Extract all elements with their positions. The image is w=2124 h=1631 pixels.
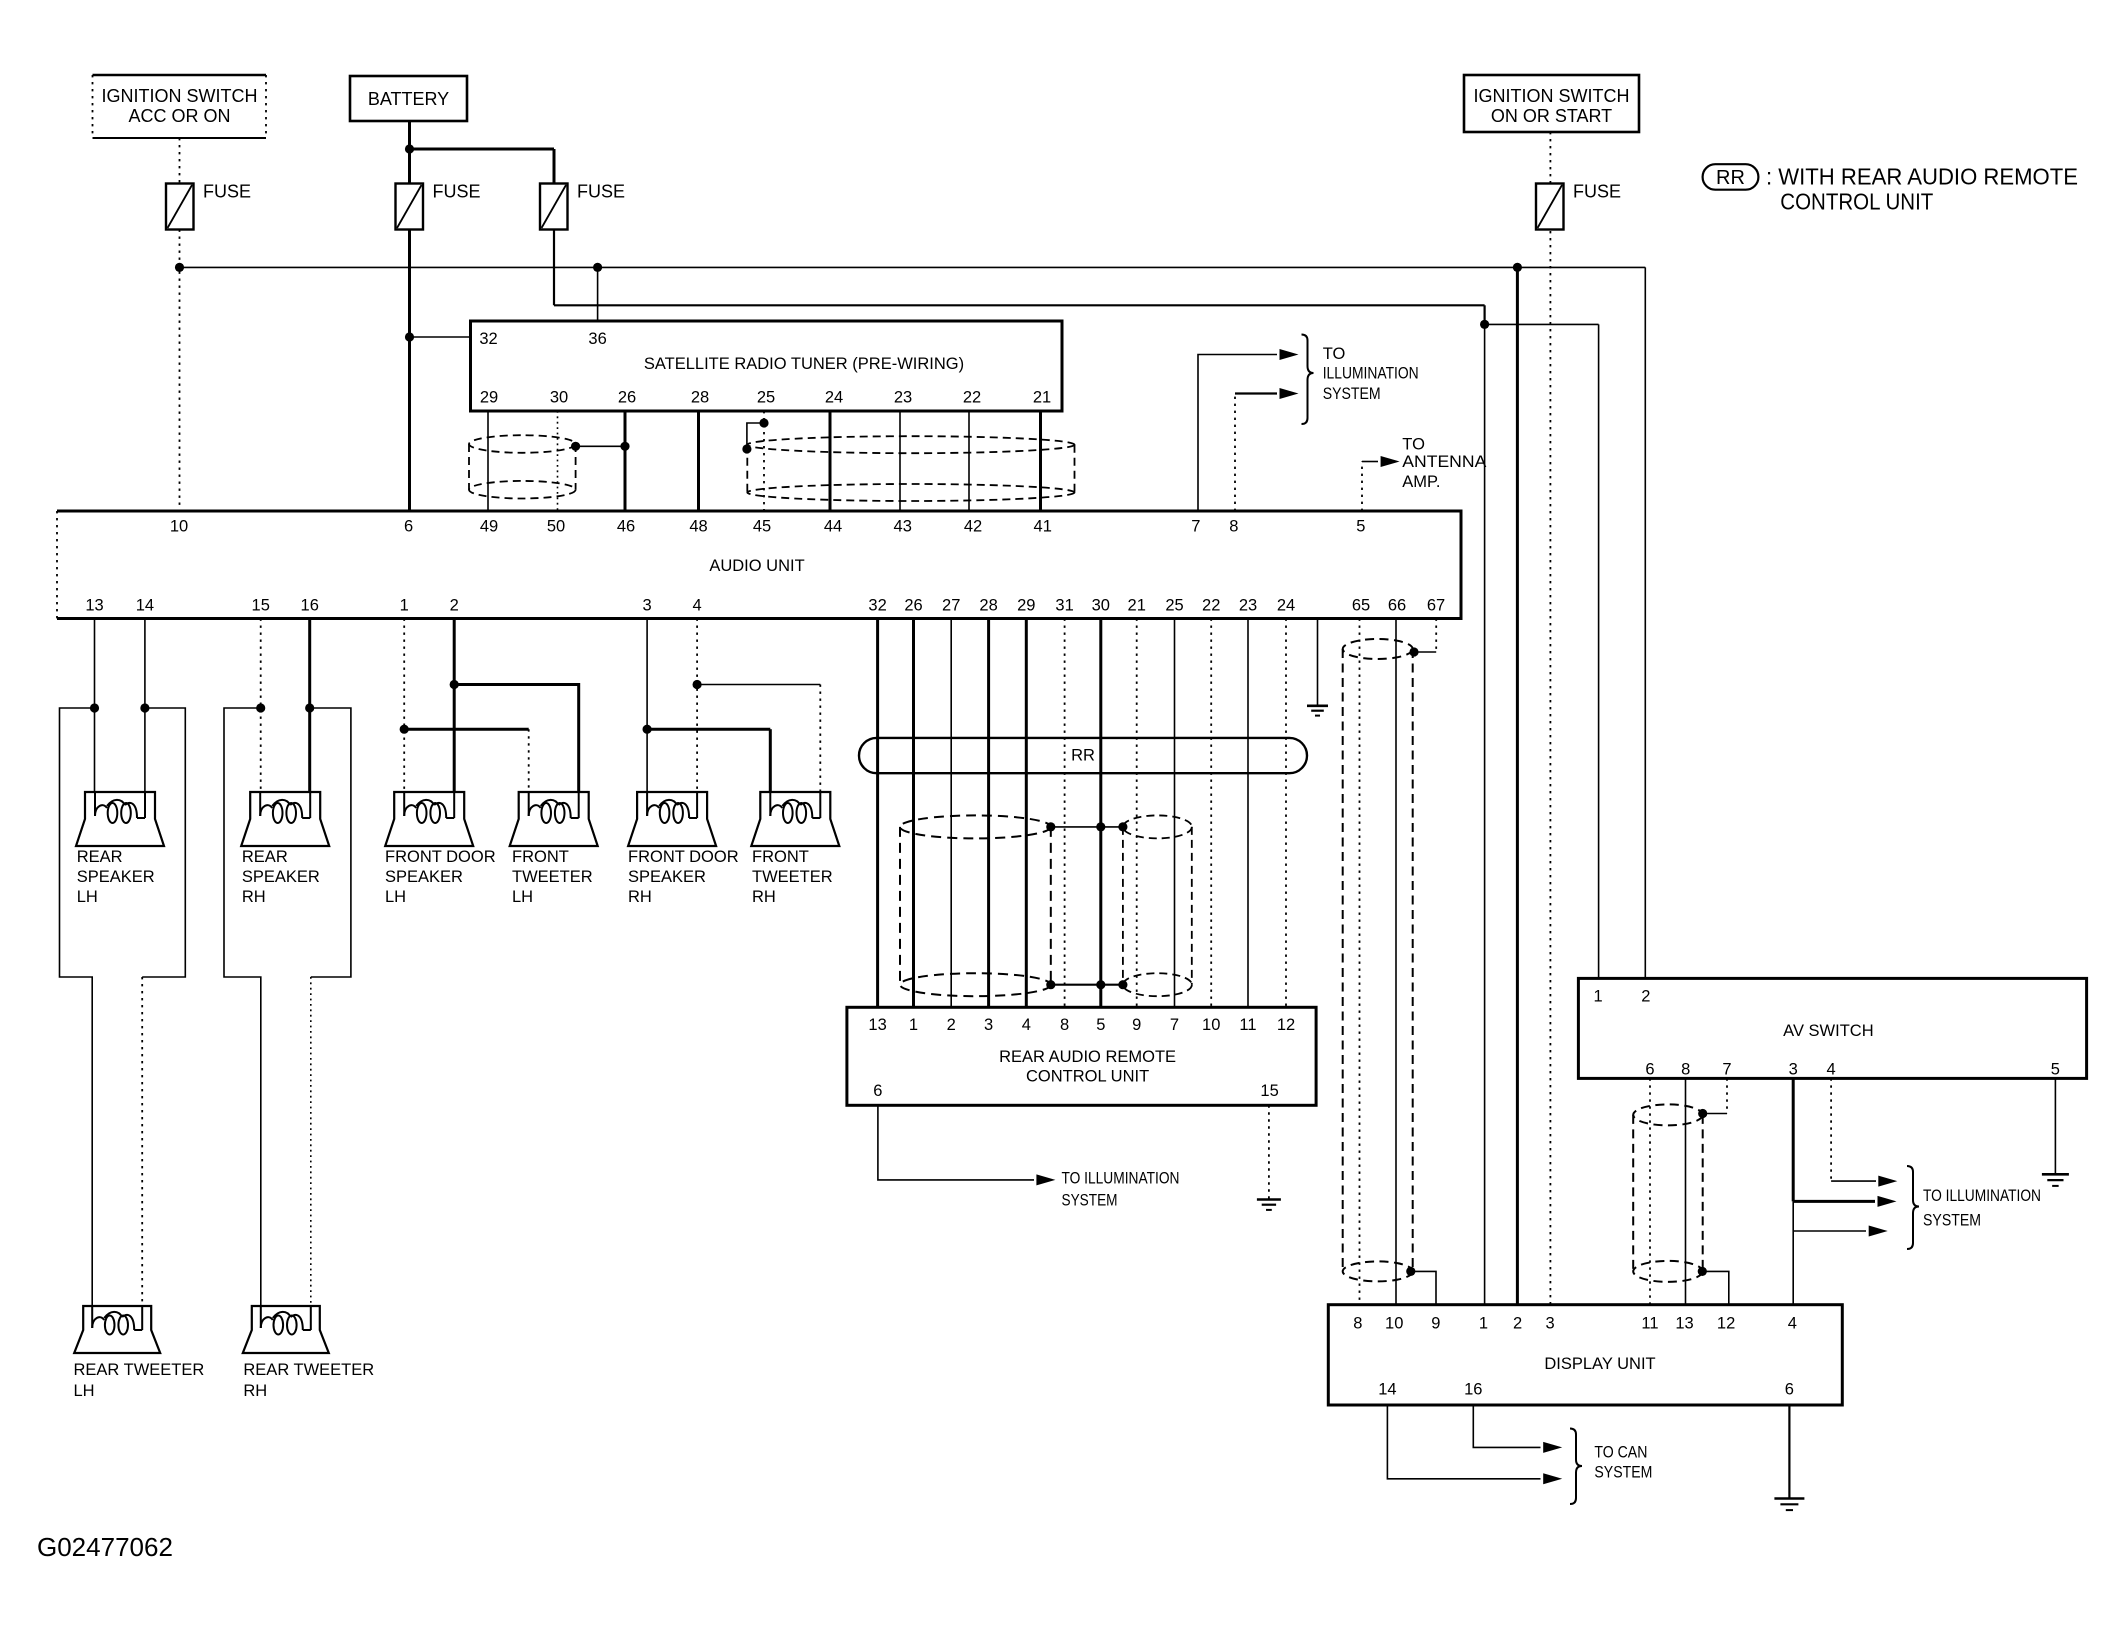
- svg-text:SPEAKER: SPEAKER: [242, 868, 320, 886]
- svg-text:TO: TO: [1323, 345, 1346, 363]
- junction rear speaker LH + tap: [90, 703, 99, 712]
- svg-text:50: 50: [547, 518, 565, 536]
- svg-text:IGNITION SWITCH: IGNITION SWITCH: [102, 86, 258, 106]
- svg-text:RH: RH: [243, 1382, 267, 1400]
- wire: down to front tweeter RH +: [769, 729, 772, 792]
- svg-text:LH: LH: [512, 888, 533, 906]
- wire: audio 2 to front door speaker LH -: [453, 619, 456, 793]
- junction shield S2 drain tap on wire 45: [759, 418, 768, 427]
- svg-text:32: 32: [479, 330, 497, 348]
- wire: ignition ON/START to fuse F4 (dotted): [1549, 132, 1551, 183]
- speaker: FRONT TWEETER RH: [751, 792, 839, 846]
- shielded cable S2 (wires 45-41): [747, 436, 1074, 501]
- svg-text:CONTROL UNIT: CONTROL UNIT: [1780, 189, 1933, 215]
- svg-text:8: 8: [1681, 1061, 1690, 1079]
- svg-text:8: 8: [1353, 1315, 1362, 1333]
- wire: ignition ACC to fuse F1 (dotted): [179, 138, 181, 184]
- brace: to illumination system (AV): [1907, 1166, 1919, 1249]
- wire: fuse F3 feed horizontal: [554, 304, 1485, 306]
- wire: fuse F3 down: [553, 230, 555, 306]
- svg-text:LH: LH: [385, 888, 406, 906]
- wire: rear speaker RH loop right: [310, 708, 351, 977]
- junction battery feed split right: [1480, 320, 1489, 329]
- wire: display 14 to CAN: [1387, 1405, 1540, 1479]
- wire: audio 14 to rear speaker LH -: [144, 619, 146, 793]
- wire: audio 66 to display 10: [1395, 619, 1397, 1305]
- display unit box: [1328, 1305, 1842, 1405]
- svg-text:5: 5: [1356, 518, 1365, 536]
- shielded cable D (wires 65/66): [1343, 639, 1413, 1281]
- junction front LH + tap: [400, 725, 409, 734]
- svg-text:65: 65: [1352, 597, 1370, 615]
- junction battery feed to satellite pin 32: [405, 332, 414, 341]
- arrowhead antenna amp: [1381, 456, 1400, 467]
- speaker: FRONT TWEETER LH: [510, 792, 598, 846]
- wire: audio pin 5 up (dotted): [1361, 462, 1363, 512]
- junction shield C drain top: [1698, 1109, 1707, 1118]
- wire: audio 26/1 rear remote: [912, 619, 915, 1008]
- svg-text:CONTROL UNIT: CONTROL UNIT: [1026, 1068, 1149, 1086]
- svg-text:4: 4: [693, 597, 702, 615]
- svg-text:21: 21: [1128, 597, 1146, 615]
- svg-text:RR: RR: [1071, 747, 1095, 765]
- ground rear remote: [1257, 1200, 1281, 1210]
- legend RR symbol: [1703, 164, 1759, 190]
- svg-text:21: 21: [1033, 389, 1051, 407]
- wire: audio 29/4 rear remote: [1025, 619, 1028, 1008]
- svg-text:2: 2: [1513, 1315, 1522, 1333]
- wire: AV 4 to illumination: [1831, 1180, 1876, 1182]
- speaker: REAR TWEETER LH: [74, 1306, 160, 1353]
- wire: shield D drain to display 9: [1411, 1271, 1436, 1304]
- wire: AV 5 to ground: [2054, 1078, 2056, 1174]
- arrowhead illumination 1: [1280, 349, 1299, 360]
- shielded cable B (rear remote 9/7): [1123, 815, 1192, 996]
- wire: audio 3 to front door speaker RH +: [646, 619, 648, 793]
- svg-text:48: 48: [689, 518, 707, 536]
- wire: AV 6 to display 11 (dotted): [1649, 1078, 1651, 1304]
- battery box: [350, 76, 467, 121]
- arrowhead CAN 2: [1543, 1473, 1562, 1484]
- svg-text:42: 42: [964, 518, 982, 536]
- wire: down to display unit pin 2: [1516, 267, 1519, 1304]
- junction wire 30 tap bottom: [1096, 980, 1105, 989]
- svg-text:3: 3: [984, 1016, 993, 1034]
- wire: satellite 26 to audio 46: [624, 411, 627, 511]
- svg-text:66: 66: [1388, 597, 1406, 615]
- wire: audio 30/5 rear remote: [1099, 619, 1102, 1008]
- svg-text:8: 8: [1060, 1016, 1069, 1034]
- svg-text:7: 7: [1170, 1016, 1179, 1034]
- junction shield B drain top: [1118, 822, 1127, 831]
- svg-text:SYSTEM: SYSTEM: [1323, 385, 1381, 403]
- svg-text:23: 23: [894, 389, 912, 407]
- wire: display 6 to ground: [1788, 1405, 1790, 1499]
- svg-text:6: 6: [1645, 1061, 1654, 1079]
- svg-text:31: 31: [1055, 597, 1073, 615]
- svg-text:IGNITION SWITCH: IGNITION SWITCH: [1474, 86, 1630, 106]
- junction front LH - tap: [450, 680, 459, 689]
- fuse F3: [540, 182, 625, 230]
- svg-text:30: 30: [1092, 597, 1110, 615]
- svg-text:LH: LH: [77, 888, 98, 906]
- wire: audio 31/8 rear remote: [1064, 619, 1066, 1008]
- svg-text:28: 28: [979, 597, 997, 615]
- svg-text:ON OR START: ON OR START: [1491, 106, 1612, 126]
- svg-text:13: 13: [85, 597, 103, 615]
- rear audio remote control unit box: [847, 1007, 1316, 1105]
- wire: loop to rear tweeter LH - (dotted): [141, 977, 143, 1306]
- svg-text:SPEAKER: SPEAKER: [77, 868, 155, 886]
- svg-text:44: 44: [824, 518, 842, 536]
- wire: audio 23/11 rear remote: [1247, 619, 1249, 1008]
- svg-text:5: 5: [2051, 1061, 2060, 1079]
- wire: branch to front tweeter RH +: [647, 728, 770, 731]
- svg-text:AUDIO UNIT: AUDIO UNIT: [709, 557, 804, 575]
- wire: AV 7 to shield C: [1703, 1113, 1727, 1115]
- AV switch box: [1578, 978, 2086, 1078]
- svg-text:4: 4: [1788, 1315, 1797, 1333]
- svg-text:REAR TWEETER: REAR TWEETER: [74, 1361, 205, 1379]
- wire: satellite 29 to audio 49: [487, 411, 489, 511]
- wire: fuse F3 feed corner down: [1483, 305, 1485, 324]
- wire: to satellite tuner pin 32: [410, 336, 471, 338]
- junction shield S1 drain on wire 46: [620, 442, 629, 451]
- svg-text:67: 67: [1427, 597, 1445, 615]
- svg-text:41: 41: [1034, 518, 1052, 536]
- svg-text:6: 6: [1785, 1381, 1794, 1399]
- wire: audio 4 to front door speaker RH - (dotted): [696, 619, 698, 793]
- svg-text:11: 11: [1641, 1315, 1658, 1333]
- junction shield A drain top: [1046, 822, 1055, 831]
- svg-text:TWEETER: TWEETER: [752, 868, 833, 886]
- svg-text:13: 13: [1675, 1315, 1693, 1333]
- wire: audio unit ground: [1317, 619, 1319, 706]
- svg-text:14: 14: [1378, 1381, 1396, 1399]
- RR option oval: [859, 738, 1307, 773]
- ground AV switch: [2042, 1174, 2069, 1186]
- wire: shield S2 drain hook: [747, 423, 764, 449]
- svg-text:15: 15: [252, 597, 270, 615]
- svg-text:24: 24: [825, 389, 843, 407]
- wire: down to front tweeter RH - (dotted): [819, 685, 821, 793]
- wire: audio 67 down (dotted): [1435, 619, 1437, 653]
- svg-text:27: 27: [942, 597, 960, 615]
- svg-text:16: 16: [1464, 1381, 1482, 1399]
- text: TO ANTENNA AMP.: [1402, 435, 1486, 491]
- svg-text:25: 25: [1165, 597, 1183, 615]
- svg-text:BATTERY: BATTERY: [368, 89, 449, 109]
- legend text: WITH REAR AUDIO REMOTE CONTROL UNIT: [1766, 164, 2078, 215]
- svg-text:RH: RH: [752, 888, 776, 906]
- junction shield B drain bottom: [1118, 980, 1127, 989]
- fuse F4: [1536, 182, 1621, 230]
- wire: audio pin 7 to illumination: [1198, 355, 1277, 512]
- wire: satellite 25 to audio 45 (dotted): [763, 411, 765, 511]
- wire: satellite 22 to audio 42: [968, 411, 970, 511]
- junction rear speaker RH + tap: [256, 703, 265, 712]
- wire: fuse F1 to audio unit pin 10 (dotted): [179, 230, 181, 512]
- svg-text:2: 2: [947, 1016, 956, 1034]
- ignition switch ACC OR ON box: [93, 75, 267, 138]
- wire: display 16 to CAN: [1473, 1405, 1540, 1447]
- svg-text:ILLUMINATION: ILLUMINATION: [1323, 365, 1419, 383]
- wire: shield C drain to display 12: [1702, 1271, 1729, 1304]
- svg-text:FUSE: FUSE: [203, 182, 251, 202]
- fuse F1: [166, 182, 251, 230]
- wire: rear speaker LH loop to rear tweeter LH +: [60, 708, 95, 1306]
- svg-text:FUSE: FUSE: [433, 182, 481, 202]
- wire: rear remote pin 6 to illumination: [878, 1105, 1034, 1180]
- wire: audio pin 8 to illumination: [1235, 392, 1277, 394]
- wire: audio 22/10 rear remote: [1210, 619, 1212, 1008]
- wire: audio 25/7 rear remote: [1174, 619, 1176, 1008]
- svg-text:9: 9: [1132, 1016, 1141, 1034]
- svg-text:23: 23: [1239, 597, 1257, 615]
- svg-text:1: 1: [909, 1016, 918, 1034]
- svg-text:12: 12: [1717, 1315, 1735, 1333]
- svg-text:4: 4: [1022, 1016, 1031, 1034]
- svg-text:10: 10: [1202, 1016, 1220, 1034]
- svg-text:4: 4: [1827, 1061, 1836, 1079]
- wire: down to satellite tuner pin 36: [597, 267, 599, 321]
- speaker: REAR TWEETER RH: [243, 1306, 329, 1353]
- svg-text:TO ILLUMINATION: TO ILLUMINATION: [1062, 1169, 1180, 1187]
- fuse F2: [396, 182, 481, 230]
- svg-text:12: 12: [1277, 1016, 1295, 1034]
- wire: audio 27/2 rear remote: [950, 619, 952, 1008]
- shielded cable C (AV 6/8): [1633, 1104, 1703, 1282]
- svg-text:11: 11: [1239, 1016, 1256, 1034]
- wire: audio 28/3 rear remote: [987, 619, 990, 1008]
- svg-text:16: 16: [301, 597, 319, 615]
- svg-text:46: 46: [617, 518, 635, 536]
- brace: to illumination system (audio): [1302, 335, 1314, 425]
- svg-text:36: 36: [588, 330, 606, 348]
- arrowhead rear remote illumination: [1036, 1174, 1055, 1185]
- wire: audio 67 to shield D: [1414, 651, 1436, 653]
- satellite radio tuner (pre-wiring) box: [471, 321, 1063, 411]
- speaker: REAR SPEAKER LH: [76, 792, 164, 846]
- junction shield A drain bottom: [1046, 980, 1055, 989]
- svg-text:26: 26: [904, 597, 922, 615]
- wire: branch to AV switch pin 1: [1485, 323, 1599, 325]
- wire: satellite 24 to audio 44: [829, 411, 832, 511]
- svg-text:1: 1: [1594, 988, 1603, 1006]
- wire: fuse F2 to audio unit pin 6: [408, 230, 411, 512]
- svg-text:FRONT DOOR: FRONT DOOR: [385, 848, 496, 866]
- wire: shield drains bottom link: [1051, 984, 1123, 986]
- wire: audio pin 5 to antenna amp: [1362, 461, 1378, 463]
- arrowhead illumination 2: [1280, 388, 1299, 399]
- svg-text:29: 29: [1017, 597, 1035, 615]
- svg-text:2: 2: [1641, 988, 1650, 1006]
- text: TO CAN SYSTEM: [1594, 1444, 1652, 1482]
- junction ACC bus tap: [175, 263, 184, 272]
- wire: audio pin 8 up (dotted): [1234, 394, 1236, 512]
- svg-text:25: 25: [757, 389, 775, 407]
- speaker: FRONT DOOR SPEAKER LH: [385, 792, 473, 846]
- svg-text:TO CAN: TO CAN: [1594, 1444, 1647, 1462]
- text: TO ILLUMINATION SYSTEM (AV): [1923, 1187, 2041, 1229]
- wire: audio 21/9 rear remote: [1136, 619, 1138, 1008]
- svg-text:SYSTEM: SYSTEM: [1062, 1191, 1118, 1209]
- wire: down to front tweeter LH + (dotted): [528, 729, 530, 792]
- wire: fuse F4 to display unit pin 3 (dotted): [1549, 231, 1551, 1305]
- text: TO ILLUMINATION SYSTEM (audio): [1323, 345, 1419, 403]
- wire: shield drains top link: [1051, 826, 1123, 828]
- junction rear speaker RH - tap: [305, 703, 314, 712]
- svg-text:REAR TWEETER: REAR TWEETER: [243, 1361, 374, 1379]
- svg-text:13: 13: [868, 1016, 886, 1034]
- svg-text:14: 14: [136, 597, 154, 615]
- svg-text:22: 22: [1202, 597, 1220, 615]
- svg-text:43: 43: [894, 518, 912, 536]
- wire: AV 3 down: [1792, 1078, 1795, 1201]
- wire: satellite 23 to audio 43: [899, 411, 901, 511]
- svg-text:RR: RR: [1716, 167, 1745, 189]
- svg-text:10: 10: [170, 518, 188, 536]
- svg-text:6: 6: [873, 1082, 882, 1100]
- wire: satellite 28 to audio 48: [697, 411, 700, 511]
- svg-text:RH: RH: [628, 888, 652, 906]
- wire: loop to rear tweeter RH - (dotted): [310, 977, 312, 1306]
- svg-text:10: 10: [1385, 1315, 1403, 1333]
- junction rear speaker LH - tap: [140, 703, 149, 712]
- svg-text:ANTENNA: ANTENNA: [1402, 453, 1486, 471]
- wire: display 4 to illumination: [1793, 1230, 1866, 1232]
- wire: AV 8 to display 13: [1685, 1078, 1687, 1304]
- junction front RH + tap: [643, 725, 652, 734]
- svg-text:SYSTEM: SYSTEM: [1923, 1211, 1981, 1229]
- arrowhead CAN 1: [1543, 1442, 1562, 1453]
- svg-text:FUSE: FUSE: [577, 182, 625, 202]
- wire: branch to front tweeter LH +: [404, 728, 529, 731]
- svg-text:7: 7: [1722, 1061, 1731, 1079]
- wire: rear speaker LH loop right: [142, 708, 185, 977]
- wire: battery to fuse F2: [408, 121, 411, 184]
- wire: audio 24/12 rear remote: [1285, 619, 1287, 1008]
- arrowhead AV illumination top: [1878, 1176, 1897, 1187]
- svg-text:TO ILLUMINATION: TO ILLUMINATION: [1923, 1187, 2041, 1205]
- shielded cable S1 (wires 49/50): [469, 435, 576, 498]
- junction shield S2 drain: [742, 444, 751, 453]
- svg-text:TWEETER: TWEETER: [512, 868, 593, 886]
- svg-text:FRONT: FRONT: [512, 848, 569, 866]
- svg-text:9: 9: [1431, 1315, 1440, 1333]
- wire: AV 7 down (dotted): [1726, 1078, 1728, 1113]
- wire: audio 65 to display 8 (dotted): [1359, 619, 1361, 1305]
- wire: ACC bus down to AV switch pin 2: [1644, 267, 1646, 978]
- svg-text:DISPLAY UNIT: DISPLAY UNIT: [1544, 1355, 1655, 1373]
- svg-text:6: 6: [404, 518, 413, 536]
- svg-text:TO: TO: [1402, 435, 1425, 453]
- audio unit box: [57, 511, 1461, 619]
- svg-text:5: 5: [1096, 1016, 1105, 1034]
- wire: audio 15 to rear speaker RH + (dotted): [260, 619, 262, 793]
- wire: branch to front tweeter LH -: [454, 685, 579, 793]
- svg-text:30: 30: [550, 389, 568, 407]
- wire: ACC bus horizontal: [180, 266, 1646, 268]
- speaker: FRONT DOOR SPEAKER RH: [628, 792, 716, 846]
- arrowhead AV illumination bottom: [1869, 1226, 1888, 1237]
- svg-text:29: 29: [480, 389, 498, 407]
- ground audio unit: [1307, 706, 1328, 716]
- svg-text:2: 2: [450, 597, 459, 615]
- svg-text:FRONT DOOR: FRONT DOOR: [628, 848, 739, 866]
- brace: to CAN system: [1570, 1429, 1582, 1505]
- shielded cable A (rear remote 1-4): [900, 815, 1051, 996]
- wire: audio 1 to front door speaker LH + (dotted): [403, 619, 405, 793]
- wire: AV 3 to display 4: [1792, 1201, 1794, 1304]
- wire: AV 3 to illumination: [1793, 1200, 1875, 1203]
- wire: satellite 30 to audio 50 (dotted): [557, 411, 559, 511]
- junction battery feed split: [405, 144, 414, 153]
- wire: audio 32/13 rear remote: [876, 619, 879, 1008]
- junction shield S1 drain: [571, 442, 580, 451]
- wire: down to display unit pin 1: [1484, 324, 1486, 1304]
- svg-text:FRONT: FRONT: [752, 848, 809, 866]
- wire: audio 13 to rear speaker LH +: [94, 619, 96, 793]
- wire: satellite 21 to audio 41: [1039, 411, 1042, 511]
- wire: rear speaker RH loop to rear tweeter RH +: [224, 708, 261, 1306]
- svg-text:ACC OR ON: ACC OR ON: [128, 106, 230, 126]
- svg-text:FUSE: FUSE: [1573, 182, 1621, 202]
- svg-text:22: 22: [963, 389, 981, 407]
- junction front RH - tap: [693, 680, 702, 689]
- wire: shield S1 drain to wire 46: [576, 445, 625, 447]
- ignition switch ON OR START box: [1464, 75, 1639, 132]
- svg-text:8: 8: [1229, 518, 1238, 536]
- svg-text:1: 1: [1479, 1315, 1488, 1333]
- svg-text:REAR AUDIO REMOTE: REAR AUDIO REMOTE: [999, 1048, 1176, 1066]
- svg-text:28: 28: [691, 389, 709, 407]
- svg-text:32: 32: [868, 597, 886, 615]
- wire: audio 16 to rear speaker RH -: [308, 619, 311, 793]
- svg-text:REAR: REAR: [242, 848, 288, 866]
- wire: branch to front tweeter RH -: [697, 684, 820, 686]
- svg-text:: WITH REAR AUDIO REMOTE: : WITH REAR AUDIO REMOTE: [1766, 164, 2078, 190]
- svg-text:15: 15: [1260, 1082, 1278, 1100]
- svg-text:SPEAKER: SPEAKER: [628, 868, 706, 886]
- wire: battery branch to fuse F3: [410, 148, 555, 151]
- svg-text:LH: LH: [74, 1382, 95, 1400]
- svg-text:AMP.: AMP.: [1402, 473, 1440, 491]
- svg-text:24: 24: [1277, 597, 1295, 615]
- wire: AV 4 down (dotted): [1830, 1078, 1832, 1181]
- junction ACC bus to satellite pin 36: [593, 263, 602, 272]
- svg-text:3: 3: [643, 597, 652, 615]
- svg-text:49: 49: [480, 518, 498, 536]
- junction shield D drain top: [1409, 647, 1418, 656]
- svg-text:3: 3: [1789, 1061, 1798, 1079]
- svg-text:AV SWITCH: AV SWITCH: [1783, 1022, 1873, 1040]
- text: TO ILLUMINATION SYSTEM (rear remote): [1062, 1169, 1180, 1209]
- svg-text:SATELLITE RADIO TUNER (PRE-WIR: SATELLITE RADIO TUNER (PRE-WIRING): [644, 355, 964, 373]
- svg-text:7: 7: [1191, 518, 1200, 536]
- svg-text:3: 3: [1546, 1315, 1555, 1333]
- svg-text:RH: RH: [242, 888, 266, 906]
- svg-text:REAR: REAR: [77, 848, 123, 866]
- arrowhead AV illumination mid: [1878, 1196, 1897, 1207]
- svg-text:SPEAKER: SPEAKER: [385, 868, 463, 886]
- svg-text:G02477062: G02477062: [37, 1532, 173, 1562]
- junction shield C drain bottom: [1698, 1267, 1707, 1276]
- junction ACC bus to display unit pin 2: [1513, 263, 1522, 272]
- ground display unit: [1774, 1499, 1804, 1511]
- svg-text:45: 45: [753, 518, 771, 536]
- wire: rear remote pin 15 to ground (dotted): [1268, 1105, 1270, 1199]
